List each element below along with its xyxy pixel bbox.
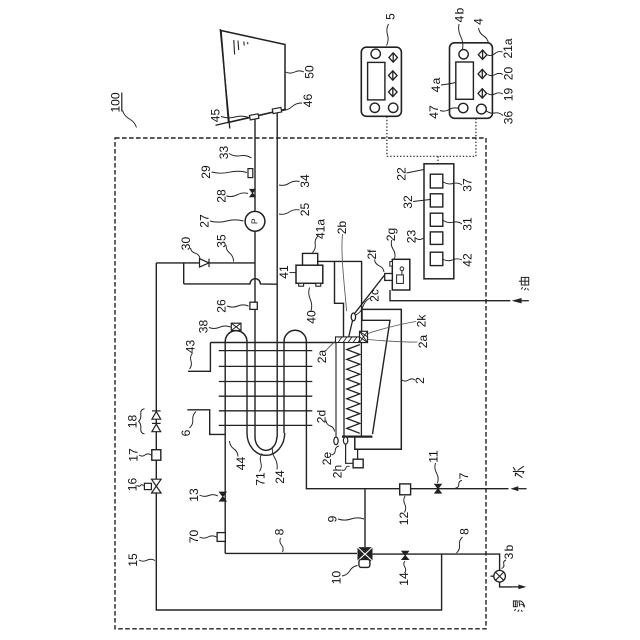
evaporator left wall <box>343 343 345 437</box>
dotted comm drop to board 22 <box>437 156 439 164</box>
valve 14 <box>402 551 409 559</box>
distributor 2k crosshatched box <box>360 331 368 342</box>
label 2c <box>356 289 382 315</box>
label 17 <box>127 448 152 462</box>
svg-text:2b: 2b <box>335 221 349 235</box>
sensor 2d stem <box>335 343 337 438</box>
label 12 <box>397 496 411 525</box>
controller 5 screen <box>368 62 385 100</box>
coil bottom outer U bend 44 <box>247 433 285 455</box>
compressor terminal box 2g <box>390 262 393 267</box>
coil fins <box>219 351 312 426</box>
svg-text:14: 14 <box>397 572 411 586</box>
label 10 <box>330 566 358 585</box>
svg-text:2k: 2k <box>415 314 429 328</box>
label 38 <box>197 320 231 334</box>
panel inlet stub 46 <box>272 107 282 113</box>
sensor 29 box <box>248 169 253 178</box>
solar collector panel 50 <box>216 29 287 129</box>
label 40 <box>305 288 319 324</box>
label 2d <box>315 410 335 432</box>
label 3b <box>502 544 517 568</box>
label 2k right <box>368 314 429 334</box>
wire line valve to hot-water branch <box>373 554 500 570</box>
oil arrow head <box>512 298 529 303</box>
glass hatch marks on panel <box>234 40 248 55</box>
svg-text:32: 32 <box>401 195 415 209</box>
svg-text:20: 20 <box>502 67 516 81</box>
label 45 <box>209 109 250 123</box>
svg-text:26: 26 <box>215 299 229 313</box>
wire suction line 2c to compressor <box>354 275 385 314</box>
compressor internal motor <box>397 267 404 283</box>
svg-text:43: 43 <box>184 340 198 354</box>
bracket 6 <box>187 410 225 435</box>
label 13 <box>187 488 218 502</box>
wire pipe pump to box 26 <box>254 231 256 302</box>
wire bypass horizontal with crossover hump <box>184 279 278 285</box>
unit 2 casing <box>355 309 402 449</box>
label 27 <box>198 214 244 228</box>
label 2h <box>331 465 350 478</box>
svg-text:8: 8 <box>458 528 472 535</box>
motor valve 16 <box>144 479 161 493</box>
svg-text:9: 9 <box>326 515 340 522</box>
unit 41a top box <box>303 253 318 265</box>
label 34 <box>279 174 312 188</box>
controller 4 diamond buttons 21a 20 19 <box>478 50 487 98</box>
svg-text:7: 7 <box>457 472 471 479</box>
label 5 <box>384 13 398 46</box>
svg-text:12: 12 <box>397 512 411 526</box>
svg-text:42: 42 <box>461 253 475 267</box>
label 2f <box>365 249 384 272</box>
remote controller 4 body <box>450 43 493 119</box>
wire pipe box 26 down into coil inner tube <box>254 309 256 437</box>
wire hot water outlet <box>500 582 513 587</box>
controller box 22 <box>424 164 454 279</box>
svg-text:46: 46 <box>301 94 315 108</box>
label 100 with underline <box>108 92 136 127</box>
wire check-valve line 35 <box>156 262 255 264</box>
svg-text:15: 15 <box>126 553 140 567</box>
svg-text:45: 45 <box>209 109 223 123</box>
valve 17 box <box>152 450 161 461</box>
label 6 <box>179 412 196 437</box>
controller 5 bottom buttons <box>370 103 398 112</box>
svg-text:2f: 2f <box>365 249 379 260</box>
label water kanji <box>513 466 524 477</box>
evaporator right wall <box>360 343 362 437</box>
dotted comm line from controller 4 <box>475 119 477 157</box>
svg-text:4 a: 4 a <box>429 77 443 92</box>
label 31 <box>444 217 475 231</box>
coil leg 2 <box>246 342 248 433</box>
label 24 <box>272 447 287 484</box>
controller 4 bottom buttons 47 36 <box>459 103 487 114</box>
svg-text:5: 5 <box>384 13 398 20</box>
svg-text:2a: 2a <box>315 350 329 364</box>
label 21a <box>488 38 516 58</box>
valve 28 <box>250 189 256 197</box>
label 2 <box>402 377 427 384</box>
label 7 <box>456 472 472 488</box>
label 44 <box>230 441 249 470</box>
coil hairpin 1 bend <box>225 331 247 342</box>
svg-text:2e: 2e <box>320 452 334 466</box>
component 2h box <box>353 449 363 468</box>
svg-text:34: 34 <box>298 174 312 188</box>
coil hairpin 2 bend <box>284 330 306 341</box>
svg-text:2a: 2a <box>416 335 430 349</box>
label 23 <box>405 230 430 244</box>
dotted comm bus horizontal <box>387 155 476 157</box>
label 46 <box>282 94 316 111</box>
wire suction line from header to 2c <box>349 320 353 337</box>
svg-text:37: 37 <box>461 178 475 192</box>
wire line 8 left segment <box>225 552 357 554</box>
label 2a left <box>315 342 335 364</box>
label 28 <box>215 189 249 203</box>
label 71 <box>254 454 268 486</box>
label 4a <box>429 77 456 92</box>
svg-text:2c: 2c <box>368 289 382 302</box>
label 22 <box>395 167 424 181</box>
label 50 <box>286 65 317 79</box>
label 2e <box>320 446 339 465</box>
controller 5 top button <box>371 49 380 58</box>
svg-text:10: 10 <box>330 571 344 585</box>
label 11 <box>427 450 441 483</box>
fin top line <box>210 342 335 344</box>
hot water valve 3b <box>491 570 506 582</box>
compressor body <box>392 259 410 290</box>
svg-text:18: 18 <box>126 415 140 429</box>
check valve 30 <box>200 259 210 267</box>
wire bypass branch down <box>183 263 185 284</box>
wire loop 15 left and bottom <box>156 263 441 610</box>
svg-text:33: 33 <box>217 146 231 160</box>
svg-text:4 b: 4 b <box>453 7 467 22</box>
svg-text:100: 100 <box>108 92 122 112</box>
component 70 box <box>217 533 225 542</box>
remote controller 5 body <box>361 47 401 116</box>
pump 27 (P) <box>245 211 265 231</box>
label 37 <box>444 178 475 192</box>
label 33 <box>217 146 252 160</box>
svg-text:P: P <box>250 218 260 224</box>
svg-text:27: 27 <box>198 214 212 228</box>
valve 13 <box>219 492 226 501</box>
dotted comm line from controller 5 <box>386 117 388 157</box>
unit 41 body <box>296 265 323 283</box>
fan shroud trapezoid <box>362 320 390 434</box>
sensor 2d bulb <box>334 437 338 445</box>
valve 11 <box>435 484 442 493</box>
label 25 <box>279 203 312 217</box>
label 29 <box>199 165 247 179</box>
component 26 box <box>250 302 257 309</box>
svg-text:17: 17 <box>127 448 141 462</box>
controller 4 top button <box>459 50 468 59</box>
svg-text:29: 29 <box>199 165 213 179</box>
svg-text:44: 44 <box>234 457 248 471</box>
four-way valve 10 <box>358 547 373 561</box>
svg-text:38: 38 <box>197 320 211 334</box>
label 26 <box>215 299 249 313</box>
svg-text:21a: 21a <box>501 38 515 58</box>
label 15 <box>126 553 155 567</box>
wire pipe from stub 45 down to pump <box>254 120 256 212</box>
evaporator bottom plate <box>342 435 372 437</box>
label 42 <box>444 253 475 267</box>
svg-text:31: 31 <box>461 217 475 231</box>
coil leg 3 <box>283 342 285 433</box>
svg-text:71: 71 <box>254 472 268 486</box>
label 16 <box>126 478 144 492</box>
air purge valve 38 <box>231 323 241 330</box>
svg-text:2g: 2g <box>384 228 398 241</box>
label 8 left <box>273 528 287 552</box>
label 4 <box>472 18 489 44</box>
water inlet arrow <box>510 486 526 491</box>
svg-text:70: 70 <box>187 530 201 544</box>
svg-text:22: 22 <box>395 167 409 181</box>
brace for 18 <box>139 409 145 434</box>
svg-text:28: 28 <box>215 189 229 203</box>
wire pipe from 41a to evaporator distributor <box>318 261 362 331</box>
label 35 <box>215 234 234 261</box>
dashed enclosure border of system 100 <box>115 138 486 629</box>
safety valves 18 pair <box>152 411 161 432</box>
coil outer leg down-left <box>224 342 226 554</box>
svg-text:50: 50 <box>303 65 317 79</box>
label 20 <box>488 67 516 81</box>
coil bottom inner U bend 71 <box>255 437 277 450</box>
label 36 <box>486 111 516 125</box>
evaporator zigzag coil <box>347 345 360 434</box>
wire pipe from stub 46 down to coil inner tube <box>276 113 278 438</box>
label 47 <box>427 105 459 119</box>
wire water line 7 <box>306 342 508 489</box>
svg-text:41: 41 <box>277 265 291 279</box>
bracket 43 <box>188 343 210 372</box>
label 30 <box>179 237 200 259</box>
svg-text:23: 23 <box>405 230 419 244</box>
label 4b <box>453 7 467 49</box>
label oil kanji <box>519 277 529 290</box>
svg-text:24: 24 <box>273 470 287 484</box>
wire from 2e bulb to 2h box <box>346 444 354 463</box>
svg-text:2h: 2h <box>331 465 345 478</box>
svg-text:40: 40 <box>305 310 319 324</box>
svg-text:2: 2 <box>413 377 427 384</box>
controller 5 diamond buttons <box>389 53 398 97</box>
label hot-water kanji <box>513 601 524 612</box>
label 2b leader <box>335 221 349 312</box>
label 8 right <box>457 528 472 553</box>
hot water arrow <box>512 585 526 590</box>
label 2a right <box>368 335 430 349</box>
component 12 box <box>400 484 411 495</box>
label 41 <box>277 265 296 279</box>
accumulator 2c teardrop <box>351 313 355 321</box>
wire branch to header 2a with jog <box>335 261 344 337</box>
svg-text:36: 36 <box>502 111 516 125</box>
sensor 2e bulb <box>343 437 347 444</box>
label 14 <box>397 561 411 586</box>
label 9 <box>326 515 365 522</box>
panel outlet stub 45 <box>249 114 259 120</box>
label 41a <box>313 219 328 253</box>
controller 4 screen 4a <box>456 62 474 99</box>
svg-text:19: 19 <box>502 88 516 102</box>
svg-text:8: 8 <box>273 528 287 535</box>
svg-text:13: 13 <box>187 488 201 502</box>
svg-text:6: 6 <box>179 429 193 436</box>
label 43 <box>184 340 198 369</box>
svg-text:16: 16 <box>126 478 140 492</box>
label 32 <box>401 195 430 209</box>
svg-text:4: 4 <box>472 18 486 25</box>
wire oil line from compressor <box>390 290 510 301</box>
label 2g <box>384 228 398 259</box>
evaporator header 2a hatched bar <box>336 337 368 343</box>
svg-text:25: 25 <box>298 203 312 217</box>
label 19 <box>488 88 516 102</box>
svg-text:3 b: 3 b <box>502 544 516 559</box>
svg-text:41a: 41a <box>314 219 328 239</box>
compressor suction port 2f <box>385 274 393 281</box>
wire line 9 valve to water line <box>364 489 366 547</box>
svg-text:11: 11 <box>427 450 441 463</box>
unit 41 feet <box>299 283 321 286</box>
svg-text:47: 47 <box>427 105 441 119</box>
label 70 <box>187 530 217 544</box>
four-way valve actuator <box>359 559 370 567</box>
board 22 relay squares <box>430 174 443 265</box>
